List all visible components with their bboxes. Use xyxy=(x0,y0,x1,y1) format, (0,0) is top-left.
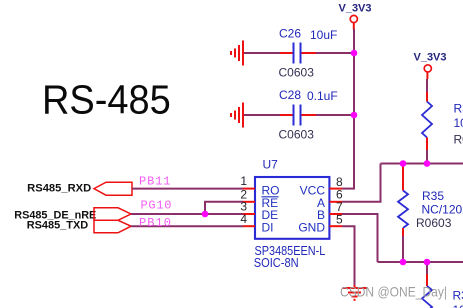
svg-text:C0603: C0603 xyxy=(279,128,315,142)
svg-text:C26: C26 xyxy=(279,27,301,41)
resistor R34 xyxy=(422,79,432,164)
svg-text:NC/120Ω: NC/120Ω xyxy=(422,203,463,217)
svg-text:R0603: R0603 xyxy=(416,216,452,230)
port RS485_DE_nRE xyxy=(14,208,131,222)
wire RXD to pin1 xyxy=(132,188,243,190)
svg-text:5: 5 xyxy=(336,212,343,226)
wire C26 to V_3V3 rail xyxy=(316,52,354,54)
junction (top bus, R34) xyxy=(424,160,431,167)
ground (C26 left) xyxy=(231,41,243,66)
svg-text:10K: 10K xyxy=(454,116,463,130)
svg-text:0.1uF: 0.1uF xyxy=(307,89,338,103)
svg-text:R35: R35 xyxy=(422,189,444,203)
resistor R35 xyxy=(398,164,408,263)
capacitor C26 xyxy=(280,43,316,64)
svg-text:RS-485: RS-485 xyxy=(42,76,171,122)
svg-text:1: 1 xyxy=(240,174,247,188)
svg-text:V_3V3: V_3V3 xyxy=(338,3,371,15)
wire pin6 to top bus xyxy=(342,164,381,202)
power port V_3V3 (top) xyxy=(338,3,371,30)
pin 5 GND xyxy=(298,212,343,234)
svg-text:SOIC-8N: SOIC-8N xyxy=(254,256,299,270)
wire top bus xyxy=(381,163,463,165)
pin 7 B xyxy=(317,200,343,222)
junction (bottom bus, R35) xyxy=(400,259,407,266)
capacitor C28 xyxy=(280,105,316,126)
IC U7 SP3485EEN-L xyxy=(255,158,329,239)
pin 4 DI xyxy=(240,212,273,235)
svg-text:U7: U7 xyxy=(263,158,279,172)
ground (C28 left) xyxy=(231,103,243,128)
pin 3 DE xyxy=(240,200,278,223)
svg-text:PG10: PG10 xyxy=(141,199,172,213)
pin 6 A xyxy=(317,188,343,210)
wire C28 to V_3V3 rail xyxy=(316,114,354,116)
svg-text:V_3V3: V_3V3 xyxy=(413,52,446,64)
svg-text:10K: 10K xyxy=(453,303,463,308)
junction (bottom bus, R36) xyxy=(424,259,431,266)
svg-text:DI: DI xyxy=(262,221,274,235)
port RS485_TXD xyxy=(27,220,131,233)
svg-text:PB11: PB11 xyxy=(139,175,171,189)
wire bottom bus xyxy=(378,261,463,263)
junction (rail, C26) xyxy=(351,50,358,57)
pin 1 RO xyxy=(240,174,279,197)
pin 8 VCC xyxy=(300,175,343,198)
svg-text:R0603: R0603 xyxy=(454,133,463,147)
svg-text:RS485_RXD: RS485_RXD xyxy=(27,182,91,194)
svg-text:PB10: PB10 xyxy=(139,216,171,230)
junction (top bus, R35) xyxy=(400,160,407,167)
wire TXD to pin4 xyxy=(131,225,243,227)
wire ground to C26 xyxy=(244,52,280,54)
svg-text:C0603: C0603 xyxy=(279,66,315,80)
ground (pin 5) xyxy=(343,285,367,300)
wire rail to pin8 xyxy=(342,188,355,190)
svg-text:CSDN @ONE_Day|: CSDN @ONE_Day| xyxy=(340,285,447,300)
port RS485_RXD xyxy=(27,182,132,195)
wire DE_nRE to pin3 xyxy=(131,213,243,215)
svg-text:RS485_TXD: RS485_TXD xyxy=(27,220,89,232)
svg-text:C28: C28 xyxy=(279,88,301,102)
wire branch to pin2 xyxy=(205,202,243,214)
wire V_3V3 rail vertical xyxy=(353,29,355,189)
svg-text:GND: GND xyxy=(298,221,325,235)
wire ground to C28 xyxy=(244,114,280,116)
svg-text:R34: R34 xyxy=(454,102,463,116)
junction (DE_nRE branch) xyxy=(202,211,209,218)
pin 2 RE (overline) xyxy=(240,187,278,210)
wire pin7 to bottom bus xyxy=(342,214,378,262)
junction (rail, C28) xyxy=(351,112,358,119)
wire pin5 to ground xyxy=(342,226,355,285)
resistor R36 (bottom, cut) xyxy=(422,262,432,308)
power port V_3V3 (right) xyxy=(413,52,446,79)
svg-text:10uF: 10uF xyxy=(310,28,337,42)
svg-text:R36: R36 xyxy=(453,289,463,303)
